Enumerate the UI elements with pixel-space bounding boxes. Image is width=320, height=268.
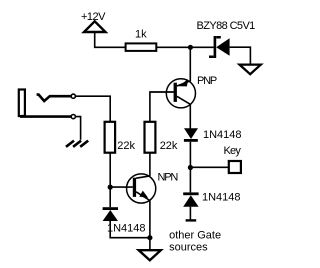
svg-text:BZY88 C5V1: BZY88 C5V1 bbox=[197, 20, 256, 32]
svg-text:1N4148: 1N4148 bbox=[203, 129, 242, 141]
svg-text:1k: 1k bbox=[135, 29, 147, 41]
svg-text:other Gate: other Gate bbox=[169, 229, 221, 241]
svg-text:22k: 22k bbox=[117, 140, 135, 152]
svg-text:22k: 22k bbox=[160, 140, 178, 152]
svg-text:Key: Key bbox=[224, 145, 242, 157]
svg-text:1N4148: 1N4148 bbox=[107, 223, 146, 235]
svg-text:sources: sources bbox=[169, 241, 208, 253]
svg-text:PNP: PNP bbox=[197, 75, 217, 87]
svg-text:NPN: NPN bbox=[158, 172, 179, 184]
svg-text:1N4148: 1N4148 bbox=[202, 192, 241, 204]
